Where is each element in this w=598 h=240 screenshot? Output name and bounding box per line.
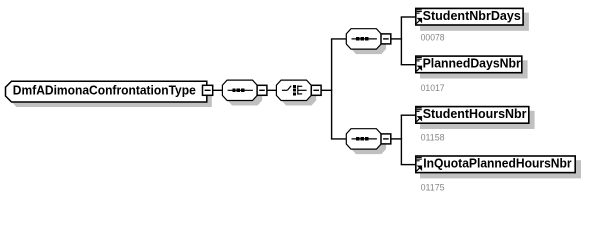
- svg-text:DmfADimonaConfrontationType: DmfADimonaConfrontationType: [13, 83, 196, 98]
- svg-text:00078: 00078: [421, 32, 445, 43]
- svg-text:01017: 01017: [421, 83, 445, 94]
- svg-text:PlannedDaysNbr: PlannedDaysNbr: [423, 57, 521, 71]
- svg-text:StudentNbrDays: StudentNbrDays: [423, 9, 521, 23]
- svg-text:InQuotaPlannedHoursNbr: InQuotaPlannedHoursNbr: [423, 157, 571, 171]
- svg-text:01158: 01158: [421, 132, 445, 143]
- svg-text:StudentHoursNbr: StudentHoursNbr: [423, 107, 527, 121]
- svg-text:01175: 01175: [421, 182, 445, 193]
